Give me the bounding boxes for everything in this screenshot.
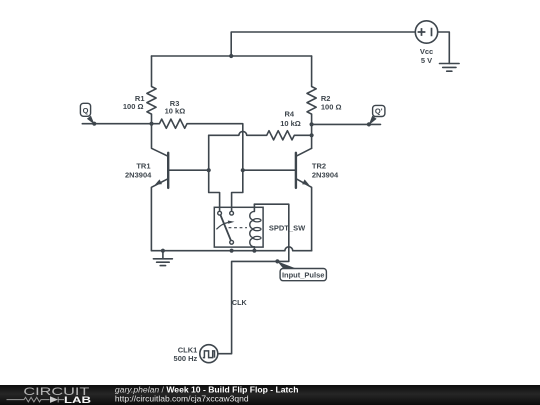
svg-text:10 kΩ: 10 kΩ [280, 119, 301, 128]
svg-text:LAB: LAB [64, 395, 92, 405]
svg-text:TR2: TR2 [312, 162, 326, 171]
svg-text:2N3904: 2N3904 [125, 170, 152, 179]
svg-text:SPDT_SW: SPDT_SW [269, 224, 306, 233]
svg-text:R4: R4 [285, 109, 295, 118]
svg-text:CLK1: CLK1 [178, 345, 198, 354]
svg-text:100 Ω: 100 Ω [321, 103, 342, 112]
svg-text:CLK: CLK [232, 298, 248, 307]
svg-text:100 Ω: 100 Ω [123, 102, 144, 111]
svg-text:10 kΩ: 10 kΩ [165, 107, 186, 116]
svg-text:Q: Q [83, 106, 89, 115]
svg-text:5 V: 5 V [421, 56, 432, 65]
svg-text:TR1: TR1 [136, 162, 150, 171]
svg-text:Input_Pulse: Input_Pulse [282, 271, 325, 280]
svg-text:500 Hz: 500 Hz [174, 354, 198, 363]
svg-text:Q': Q' [375, 107, 383, 116]
svg-text:http://circuitlab.com/cja7xcca: http://circuitlab.com/cja7xccaw3qnd [115, 394, 249, 404]
svg-text:2N3904: 2N3904 [312, 170, 339, 179]
